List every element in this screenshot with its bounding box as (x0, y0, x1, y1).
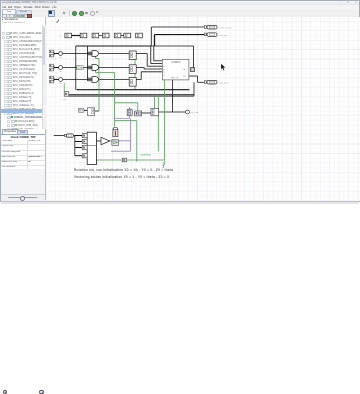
wire green long (164, 80, 166, 160)
wire row3 (63, 79, 93, 81)
register R2 (129, 65, 136, 74)
wire green right (157, 96, 159, 151)
chain box B6 (124, 33, 131, 38)
wire purple (110, 140, 131, 142)
input port group IN3 (49, 76, 53, 79)
probe box green row2 (77, 66, 84, 70)
component M1 (78, 108, 84, 112)
wire (150, 46, 152, 64)
bus2 (64, 93, 194, 95)
register R1 (129, 51, 136, 60)
small box P1 on bus2 (64, 92, 69, 97)
component M8 (112, 140, 119, 146)
wire chain links (72, 35, 81, 37)
block sequencer M6 (87, 132, 96, 164)
wire row1 (63, 53, 93, 55)
bottom annotation text (74, 168, 173, 172)
component M4 (135, 111, 142, 116)
mouse cursor (221, 64, 226, 71)
toolbar band (1, 9, 359, 18)
wire input bus left (54, 135, 66, 137)
mux gate G1 (92, 51, 98, 57)
left panel (1, 17, 46, 200)
input port group IN2 (49, 64, 53, 67)
wire (150, 27, 152, 46)
wire green g4 (153, 96, 155, 108)
wire row2 (63, 67, 93, 69)
wire M5 out (159, 111, 186, 113)
component M3 (129, 107, 131, 109)
mux gate G3 (92, 77, 99, 83)
output port node seq (186, 110, 190, 114)
wire green g3 (134, 58, 136, 90)
wire loop to clock box (151, 45, 193, 47)
chain box B2 (80, 33, 87, 38)
title bar (1, 1, 359, 6)
wire green M9 tee (115, 120, 137, 122)
bus thick (77, 89, 190, 91)
chain box B3 (92, 33, 99, 38)
output port CORD_done (204, 81, 206, 84)
buffer tri M7 (101, 137, 110, 144)
component M2 (87, 108, 94, 116)
canvas (46, 17, 360, 201)
status bar (1, 201, 359, 205)
wire purple M3 drop (129, 116, 131, 119)
wire green bottom bus (96, 159, 164, 161)
ground (163, 161, 166, 168)
register M5 (151, 108, 159, 115)
wire CORDIC bottom (172, 80, 174, 112)
input port pill feed (65, 134, 67, 137)
wire green g2 (95, 70, 97, 72)
wire M4-M5 (142, 112, 151, 114)
component on green bus (122, 158, 126, 162)
pin box (82, 139, 87, 143)
wire (76, 45, 152, 47)
chain box B1 (65, 33, 72, 38)
wire green g1 (95, 56, 97, 58)
chain box B5 (114, 33, 121, 38)
mux gate G2 (92, 65, 99, 71)
pin box (82, 154, 87, 158)
clock buffer box N1 (190, 68, 194, 72)
wire M2 out (95, 110, 99, 112)
input port group IN1 (49, 50, 53, 53)
component M9 thermo (113, 127, 118, 130)
wire (153, 46, 155, 61)
wire M6 out (96, 140, 101, 142)
panel icons (2, 14, 7, 19)
chain box B7 (136, 33, 143, 38)
wire PD to done port (189, 75, 198, 77)
register R3 (129, 78, 136, 87)
wire green input3 drop (63, 83, 65, 92)
pin box (82, 145, 87, 149)
wire gate taps (88, 51, 93, 53)
menu bar (1, 5, 359, 9)
output port CORD_outX (204, 26, 206, 29)
block CORDIC U1 (162, 59, 189, 80)
wire green g2 jog (115, 102, 138, 104)
output port CORD_outY (204, 33, 206, 36)
chain box B4 (102, 33, 109, 38)
wire (154, 35, 156, 46)
pin box (82, 133, 87, 137)
